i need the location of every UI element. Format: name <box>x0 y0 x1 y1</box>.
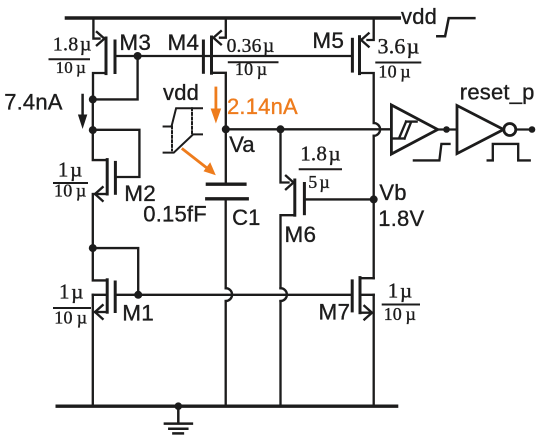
svg-text:10µ: 10µ <box>56 58 86 77</box>
node: Vb <box>370 195 378 203</box>
svg-text:1.8µ: 1.8µ <box>300 142 341 166</box>
M2 size 1u/10u <box>54 157 86 200</box>
wire: M3 source from vdd rail <box>93 18 99 39</box>
wire: M1 gate loop <box>93 248 138 295</box>
M6 size 1.8u/5u <box>300 142 341 192</box>
svg-text:M6: M6 <box>285 222 317 247</box>
current arrow 2.14nA (orange) <box>214 88 217 110</box>
reset_p pulse waveform <box>488 144 530 161</box>
wire: M5 drain down (hop over Va line) <box>374 123 380 278</box>
vdd ramp symbol <box>163 80 202 153</box>
svg-text:1µ: 1µ <box>59 279 84 303</box>
wire: M2 source down to M1 <box>92 194 94 248</box>
transistor M5 (PMOS) <box>352 33 373 123</box>
svg-text:reset_p: reset_p <box>460 80 535 105</box>
current arrow 7.4nA <box>81 95 84 116</box>
svg-text:0.15fF: 0.15fF <box>143 202 207 227</box>
wire: M5 source from vdd rail <box>368 18 374 40</box>
svg-text:2.14nA: 2.14nA <box>227 94 298 119</box>
inverter U2 <box>457 106 516 154</box>
wire: M4 source from vdd rail <box>220 18 226 38</box>
M7 size 1u/10u <box>384 278 416 324</box>
wire: Va down to C1 <box>225 129 227 184</box>
svg-text:1.8µ: 1.8µ <box>53 34 92 56</box>
schmitt trigger U1 <box>391 105 437 154</box>
svg-text:Va: Va <box>229 132 255 157</box>
node: M2 drain/gate tie <box>89 126 97 134</box>
svg-text:5µ: 5µ <box>308 172 330 192</box>
svg-text:M3: M3 <box>119 30 151 55</box>
node: M6 drain at Va line <box>277 125 285 133</box>
svg-text:1µ: 1µ <box>388 278 413 302</box>
wire: bias line M1 gate to M7 gate <box>138 294 352 296</box>
wire: M3 drain to M2 drain <box>92 99 94 130</box>
wire: M3 gate to drain <box>93 56 138 99</box>
svg-text:3.6µ: 3.6µ <box>378 33 420 58</box>
schmitt output step waveform <box>414 144 450 161</box>
M3 size 1.8u/10u <box>53 34 92 78</box>
transistor M2 (NMOS diode) <box>93 130 116 201</box>
transistor M1 (NMOS diode) <box>93 248 138 319</box>
wire: M1 source to ground <box>92 295 94 406</box>
svg-text:vdd: vdd <box>163 80 199 105</box>
svg-text:1.8V: 1.8V <box>378 206 424 231</box>
node: M1 drain/gate tie <box>89 244 97 252</box>
wire: common gate line M3-M4-M5 <box>115 55 352 57</box>
svg-text:10µ: 10µ <box>378 61 410 81</box>
svg-text:7.4nA: 7.4nA <box>4 89 63 114</box>
svg-text:10µ: 10µ <box>54 308 87 328</box>
svg-text:1µ: 1µ <box>58 157 83 181</box>
node: M3 drain <box>89 95 97 103</box>
node: M1 gate junction <box>134 291 142 299</box>
transistor M7 (NMOS) <box>352 278 374 406</box>
svg-text:M4: M4 <box>168 30 200 55</box>
node: reset_p output <box>529 126 536 133</box>
wire: schmitt out <box>438 128 457 130</box>
M1 size 1u/10u <box>54 279 87 327</box>
transistor M6 <box>281 129 374 406</box>
svg-text:Vb: Vb <box>379 180 406 205</box>
vdd rail (top) <box>65 16 401 19</box>
svg-text:C1: C1 <box>232 205 261 230</box>
M4 size 0.36u/10u <box>227 36 275 79</box>
transistor M4 (PMOS) <box>203 31 225 129</box>
node: schmitt output <box>443 126 450 133</box>
M5 size 3.6u/10u <box>378 33 420 81</box>
ground rail (bottom) <box>56 405 399 408</box>
ramp-to-C1 arrow (orange) <box>183 149 210 170</box>
svg-text:M5: M5 <box>312 28 344 53</box>
wire: Va line to schmitt input <box>226 128 392 130</box>
transistor M3 (PMOS) <box>93 32 115 99</box>
node: gate/drain tie of M3 <box>134 52 142 60</box>
svg-text:M7: M7 <box>319 300 351 325</box>
vdd step waveform <box>437 18 474 36</box>
svg-text:vdd: vdd <box>401 4 437 29</box>
wire: C1 bottom to ground (with hop) <box>226 199 232 406</box>
wire: M2 gate loop <box>93 130 140 177</box>
node: Va (M4 drain) <box>222 125 230 133</box>
svg-text:10µ: 10µ <box>384 304 416 324</box>
svg-text:0.36µ: 0.36µ <box>227 36 275 57</box>
wire: inverter out <box>516 128 532 130</box>
svg-text:M1: M1 <box>122 301 154 326</box>
ground symbol <box>165 402 192 433</box>
capacitor C1 <box>207 184 247 199</box>
